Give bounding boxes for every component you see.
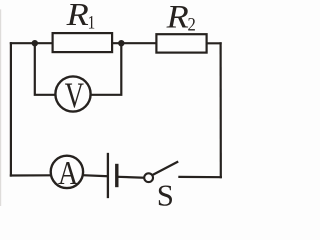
wire: voltmeter branch right (from meter up to right junction): [91, 43, 122, 95]
svg-text:S: S: [157, 179, 174, 207]
wire: switch to bottom-right corner: [179, 176, 220, 179]
resistor R1: [53, 33, 113, 52]
wire: right rail: [220, 43, 222, 177]
wire: ammeter to battery: [83, 175, 107, 176]
ammeter A: [51, 153, 83, 191]
wire: top rail, R1 to R2: [112, 42, 157, 44]
junction node: left dot on top rail: [32, 40, 38, 46]
label R1: [66, 0, 96, 33]
scan edge artifact (left page edge): [0, 10, 2, 206]
svg-text:A: A: [58, 153, 79, 191]
wire: top rail, left corner to R1: [11, 42, 54, 44]
wire: top rail, R2 to top-right corner: [207, 42, 221, 44]
svg-text:V: V: [65, 75, 84, 115]
resistor R2: [156, 34, 206, 52]
svg-text:R: R: [66, 0, 89, 33]
wire: battery to switch pivot: [118, 176, 143, 179]
switch S: pivot circle: [144, 173, 153, 182]
junction node: right dot on top rail: [118, 40, 124, 46]
switch S: open lever blade: [153, 162, 177, 175]
voltmeter V: [55, 75, 90, 115]
label R2: [166, 0, 196, 35]
svg-text:R: R: [166, 0, 189, 35]
wire: left rail: [10, 43, 12, 175]
battery: short plate (negative): [115, 166, 118, 186]
svg-text:1: 1: [88, 12, 96, 33]
svg-text:2: 2: [188, 13, 196, 34]
wire: voltmeter branch left (down from left junction, across to meter): [35, 43, 56, 95]
wire: bottom rail, left corner to ammeter: [11, 174, 51, 176]
battery: long plate (positive): [107, 154, 109, 197]
